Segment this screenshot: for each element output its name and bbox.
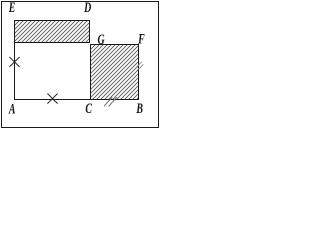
- wire segment A-B (bottom edge): [14, 99, 139, 101]
- svg-text:G: G: [98, 31, 105, 47]
- double tick mark on CB: [104, 97, 117, 107]
- wire segment A-E (left edge): [14, 20, 16, 100]
- svg-text:D: D: [83, 0, 91, 15]
- svg-text:A: A: [8, 101, 15, 117]
- hatched rectangle E-D strip: [15, 21, 90, 43]
- hatched square G-F-B-C: [91, 45, 139, 100]
- svg-text:B: B: [136, 100, 143, 116]
- svg-text:C: C: [85, 100, 92, 116]
- svg-text:E: E: [8, 0, 15, 16]
- border frame: [2, 2, 159, 128]
- svg-text:F: F: [137, 31, 145, 47]
- double tick mark on FB: [137, 62, 144, 70]
- x tick mark on AC: [47, 94, 57, 104]
- x tick mark on AE: [9, 57, 19, 67]
